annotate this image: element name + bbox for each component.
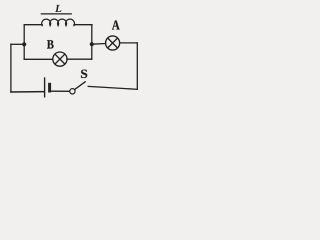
battery cell short thick plate	[48, 83, 51, 93]
lamp B (circle with X)	[53, 52, 67, 66]
wire battery to switch	[52, 90, 71, 92]
label B	[47, 40, 54, 48]
wire top-left horizontal (corner to coil)	[24, 24, 42, 26]
wire middle-left horizontal	[11, 43, 24, 45]
wire left inner vertical leg	[23, 25, 25, 60]
label S	[81, 70, 87, 78]
inductor core bar	[41, 13, 71, 15]
wire B branch left	[24, 58, 53, 60]
wire lamp A to right corner	[120, 42, 138, 44]
wire bottom-left horizontal	[11, 91, 44, 93]
battery cell long plate	[44, 77, 46, 97]
wire right outer vertical	[136, 43, 138, 89]
background	[0, 0, 148, 112]
wire right inner vertical leg	[91, 25, 93, 60]
switch S pivot circle	[70, 89, 75, 94]
wire top-right horizontal (coil to corner)	[74, 24, 92, 26]
wire B branch right	[67, 58, 92, 60]
wire left outer vertical	[10, 44, 12, 92]
switch S lever	[75, 81, 86, 89]
inductor L1 coil (4 loops)	[42, 19, 75, 26]
junction node left	[22, 42, 26, 46]
wire middle-right horizontal (junction to lamp A)	[92, 43, 106, 46]
label L	[55, 5, 61, 12]
junction node right	[90, 42, 94, 46]
label A	[112, 21, 120, 30]
wire switch to right corner (sloped)	[88, 86, 137, 89]
lamp A (circle with X)	[106, 36, 120, 50]
